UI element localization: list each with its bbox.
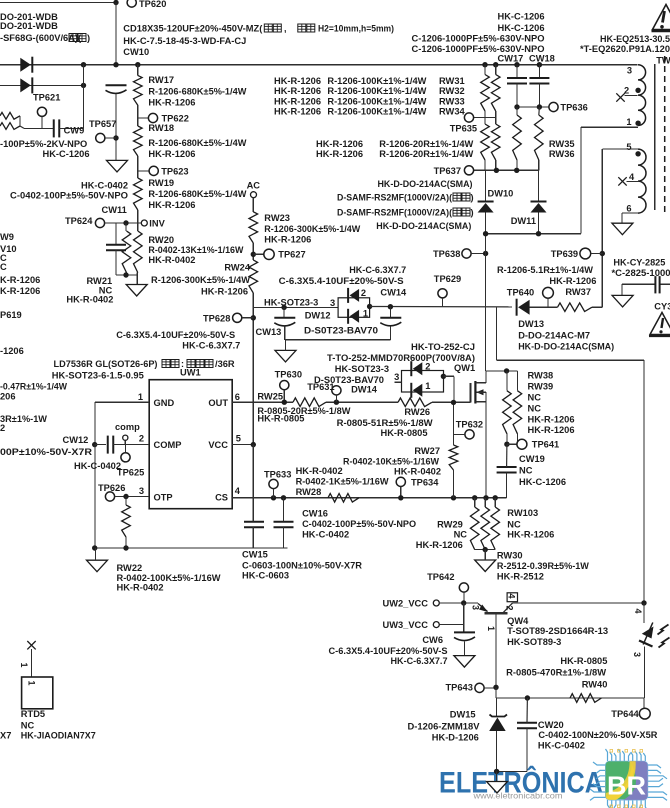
svg-text:5: 5 (626, 142, 631, 152)
svg-text:HK-R-0805: HK-R-0805 (381, 428, 428, 438)
svg-text:3: 3 (330, 298, 335, 308)
svg-text:C-0603-100N±10%-50V-X7R: C-0603-100N±10%-50V-X7R (242, 561, 362, 571)
svg-text:3: 3 (394, 372, 399, 382)
wire CW14 stem (389, 307, 391, 318)
wire CW9 left (20, 126, 24, 128)
node sense j2 (493, 495, 498, 500)
box RTD5 (22, 677, 53, 709)
wire CY3 gnd (621, 284, 623, 295)
resistor RW39 (513, 391, 522, 434)
svg-text:R-1206-20R±1%-1/4W: R-1206-20R±1%-1/4W (379, 149, 473, 159)
svg-text:HK-R-1206: HK-R-1206 (549, 276, 596, 286)
svg-text:R-1206-680K±5%-1/4W: R-1206-680K±5%-1/4W (148, 138, 246, 148)
capacitor CW13 (274, 317, 295, 319)
svg-text:TP633: TP633 (264, 470, 291, 480)
svg-text:3: 3 (632, 652, 642, 657)
svg-text:3R±1%-1W: 3R±1%-1W (0, 414, 47, 424)
svg-text:D-1206-ZMM18V: D-1206-ZMM18V (408, 722, 481, 732)
resistor RW30 (481, 507, 490, 550)
svg-text:RW31: RW31 (439, 76, 465, 86)
resistor RW26 (398, 398, 432, 407)
test point TP634 (396, 477, 405, 486)
pin comp circle (123, 435, 128, 440)
svg-text:TP644: TP644 (611, 709, 639, 719)
svg-text:HK-D-DO-214AC(SMA): HK-D-DO-214AC(SMA) (376, 221, 471, 231)
svg-text:TP634: TP634 (411, 478, 439, 488)
wire RTD5 pin (31, 649, 33, 677)
svg-text:R-1206-100K±1%-1/4W: R-1206-100K±1%-1/4W (327, 76, 426, 86)
svg-text:C-1206-1000PF±5%-630V-NPO: C-1206-1000PF±5%-630V-NPO (412, 34, 545, 44)
svg-text:4: 4 (629, 172, 635, 182)
svg-text:HK-D-DO-214AC(SMA): HK-D-DO-214AC(SMA) (518, 342, 614, 352)
wire CW9 right (59, 127, 83, 129)
test point TP624 (95, 218, 104, 227)
svg-text:HK-R-1206: HK-R-1206 (148, 200, 195, 210)
wire TP623 tap (138, 170, 150, 172)
resistor RW24 (249, 260, 258, 293)
node CW14 tap (388, 304, 393, 309)
node CW13 tap (281, 305, 286, 310)
node tp637 j1 (494, 168, 499, 173)
wire RW24 bottom (252, 293, 254, 445)
wire INV (105, 222, 142, 224)
node TP630 tap (282, 400, 287, 405)
svg-text:T-TO-252-MMD70R600P(700V/8A): T-TO-252-MMD70R600P(700V/8A) (327, 353, 475, 363)
svg-text:HK-C-6.3X7.7: HK-C-6.3X7.7 (391, 656, 448, 666)
svg-text:RW30: RW30 (497, 551, 523, 561)
svg-text:HK-C-0402: HK-C-0402 (74, 461, 121, 471)
test point TP629 (438, 289, 447, 298)
svg-text:2: 2 (361, 288, 366, 298)
wire VCC pin5 (232, 444, 253, 446)
diode DW11 (531, 201, 547, 203)
svg-text:D-S0T23-BAV70: D-S0T23-BAV70 (304, 326, 378, 336)
test point TP643 (475, 683, 484, 692)
svg-text:NC: NC (507, 520, 521, 530)
wire rw33 bot (484, 160, 486, 170)
svg-text:R-1206-100K±1%-1/4W: R-1206-100K±1%-1/4W (327, 97, 426, 107)
wire CW13-CW14 gnd rail (285, 339, 391, 341)
node pin1 tap (635, 121, 640, 126)
node INV junction (123, 220, 128, 225)
wire QW1 source (485, 402, 487, 498)
wire RW19 to INV (137, 210, 139, 223)
svg-text:CW11: CW11 (102, 205, 127, 215)
wire comp stem (124, 440, 126, 444)
svg-text:RW33: RW33 (439, 97, 465, 107)
svg-text:C: C (0, 262, 7, 272)
svg-text:R-1206-300K±5%-1/4W: R-1206-300K±5%-1/4W (264, 224, 360, 234)
capacitor CW6 (454, 631, 475, 633)
svg-text:HK-C-0402: HK-C-0402 (538, 741, 585, 751)
svg-text:2: 2 (624, 86, 629, 96)
svg-text:TP622: TP622 (162, 114, 189, 124)
svg-text:TP627: TP627 (278, 250, 305, 260)
node pin5 tap (635, 151, 640, 156)
resistor RW29 NC (470, 507, 479, 550)
node RTD5 X (27, 641, 35, 649)
warning triangle mid (650, 313, 670, 335)
svg-text:LD7536R GL(SOT26-6P): LD7536R GL(SOT26-6P) (54, 359, 158, 369)
wire gnd stem rail (95, 548, 97, 560)
test point TP641 (517, 439, 527, 449)
svg-text:HK-R-2512: HK-R-2512 (497, 572, 544, 582)
svg-text:1: 1 (425, 381, 430, 391)
node TP641 tap (504, 442, 509, 447)
wire gnd stem z (496, 771, 498, 781)
svg-text:CW9: CW9 (64, 126, 85, 136)
svg-text:RW20: RW20 (148, 235, 174, 245)
wire OUT pin6 (232, 401, 293, 403)
svg-text:TP629: TP629 (434, 274, 461, 284)
svg-text:RW34: RW34 (439, 107, 465, 117)
wire TP639 link (591, 253, 603, 255)
svg-text:HK-R-1206: HK-R-1206 (528, 425, 575, 435)
wire CW12 left (95, 444, 106, 446)
capacitor CW15 (244, 521, 264, 523)
svg-text:2: 2 (0, 423, 5, 433)
svg-text:TP620: TP620 (139, 0, 166, 9)
wire second line (0, 84, 84, 86)
svg-text:4: 4 (633, 609, 643, 614)
test point TP632 (465, 430, 474, 439)
svg-text:VCC: VCC (208, 440, 228, 450)
svg-text:RW21: RW21 (87, 276, 113, 286)
svg-text:R-1206-680K±5%-1/4W: R-1206-680K±5%-1/4W (148, 87, 246, 97)
wire TP636 rail (517, 106, 549, 108)
svg-text:TP624: TP624 (65, 216, 93, 226)
svg-text:6: 6 (626, 204, 631, 214)
svg-text:HK-R-0402: HK-R-0402 (296, 466, 343, 476)
test point TP630 (280, 381, 289, 390)
pin INV circle (141, 220, 147, 226)
svg-text:BR: BR (607, 771, 646, 801)
wire feedback (495, 307, 497, 360)
svg-text:NC: NC (528, 404, 542, 414)
ground INV chain (126, 285, 147, 297)
capacitor CW18 (538, 65, 540, 79)
wire CW11 bottom (115, 250, 117, 275)
svg-text:K-R-1206: K-R-1206 (0, 275, 40, 285)
wire DW13-RW37 (530, 306, 558, 308)
svg-text:*T-EQ2620.P91A.120: *T-EQ2620.P91A.120 (580, 44, 670, 54)
wire TP634 stem (400, 487, 402, 498)
svg-text:RW35: RW35 (549, 139, 575, 149)
svg-text:): ) (471, 208, 474, 218)
node tp636 j1 (514, 104, 519, 109)
resistor RW34 (491, 124, 500, 160)
svg-text:HK-C-0603: HK-C-0603 (242, 571, 289, 581)
svg-text:RW18: RW18 (148, 123, 174, 133)
svg-text:RW22: RW22 (117, 563, 143, 573)
svg-text:T-SOT89-2SD1664R-13: T-SOT89-2SD1664R-13 (507, 626, 608, 636)
svg-text:COMP: COMP (154, 440, 182, 450)
capacitor CW19 (497, 466, 517, 468)
svg-text:DW14: DW14 (351, 385, 378, 395)
wire zener stem (496, 698, 498, 717)
svg-text:RW25: RW25 (257, 392, 283, 402)
svg-text:HK-TO-252-CJ: HK-TO-252-CJ (411, 342, 475, 352)
svg-text:2: 2 (139, 434, 144, 444)
node clamp j1 (483, 231, 488, 236)
svg-text:5: 5 (236, 434, 241, 444)
node TP627 tap (251, 252, 256, 257)
wire OTP pin3 (115, 496, 150, 498)
resistor RW103 NC (491, 507, 500, 550)
svg-text:comp: comp (115, 422, 140, 432)
wire diode join vertical (83, 65, 85, 129)
diode DW12 (338, 298, 370, 318)
wire sense bottom (475, 549, 496, 551)
svg-text:HK-C-6.3X7.7: HK-C-6.3X7.7 (182, 341, 240, 351)
svg-text:HK-R-1206: HK-R-1206 (316, 149, 363, 159)
wire pin5 (602, 148, 638, 150)
svg-text:*C-2825-1000: *C-2825-1000 (612, 268, 670, 278)
svg-text:HK-R-1206: HK-R-1206 (316, 139, 363, 149)
wire TP622 tap (138, 117, 149, 119)
svg-text:HK-D-1206: HK-D-1206 (432, 733, 479, 743)
node CW20 tap (525, 695, 530, 700)
wire RW37 right (592, 306, 602, 308)
transformer primary winding (638, 65, 646, 126)
svg-text:C-1206-1000PF±5%-630V-NPO: C-1206-1000PF±5%-630V-NPO (412, 44, 545, 54)
wire TP641 link (507, 443, 517, 445)
svg-text:HK-C-6.3X7.7: HK-C-6.3X7.7 (349, 265, 406, 275)
svg-text:C-6.3X5.4-10UF±20%-50V-S: C-6.3X5.4-10UF±20%-50V-S (279, 276, 404, 286)
svg-text:CW14: CW14 (380, 287, 407, 297)
wire UW2_VCC (439, 602, 478, 604)
diode DW15 zener (490, 715, 508, 717)
wire gnd stem inv (136, 273, 138, 285)
wire zener rail (495, 687, 497, 698)
svg-text:HK-R-1206: HK-R-1206 (148, 149, 195, 159)
svg-text:D-DO-214AC-M7: D-DO-214AC-M7 (518, 331, 590, 341)
wire CS pin4 (232, 497, 506, 499)
ground CW10 (107, 160, 128, 172)
ground CW6 (454, 656, 475, 668)
node TP628 junction (251, 315, 256, 320)
test point TP633 (269, 479, 278, 488)
wire TP643 link (484, 687, 496, 689)
svg-text:1: 1 (19, 663, 29, 668)
node TP643 junction (493, 685, 498, 690)
svg-text:RW40: RW40 (582, 680, 608, 690)
svg-text:HK-R-1206: HK-R-1206 (148, 98, 195, 108)
svg-text:RW36: RW36 (549, 149, 575, 159)
svg-text:RW39: RW39 (528, 382, 554, 392)
svg-text:OUT: OUT (208, 398, 228, 408)
svg-text:HK-EQ2513-30.5: HK-EQ2513-30.5 (600, 34, 670, 44)
wire snubber (253, 306, 338, 308)
wire AC stem (252, 198, 254, 212)
wire INV gnd rail (116, 274, 138, 276)
svg-text:-100P±5%-2KV-NPO: -100P±5%-2KV-NPO (0, 139, 87, 149)
resistor RW40 (570, 694, 602, 703)
diode D1 top-left (31, 57, 33, 73)
svg-text:HK-C-7.5-18-45-3-WD-FA-CJ: HK-C-7.5-18-45-3-WD-FA-CJ (123, 36, 246, 46)
svg-text:DW15: DW15 (450, 710, 476, 720)
node TP631 tap (334, 400, 339, 405)
node sense j1 (472, 495, 477, 500)
svg-text:RW26: RW26 (404, 407, 430, 417)
resistor RW19 (134, 178, 143, 210)
capacitor CW20 (517, 722, 537, 724)
svg-text:TP625: TP625 (117, 468, 144, 478)
svg-text:TP643: TP643 (446, 683, 473, 693)
wire RW23-TP627 (252, 243, 254, 260)
wire TP632 link (454, 433, 465, 435)
svg-text:TP641: TP641 (532, 440, 559, 450)
tap pin2 (625, 95, 638, 97)
resistor RW32 (495, 65, 497, 75)
svg-text:CW20: CW20 (538, 720, 564, 730)
wire CW10 to gnd (115, 94, 117, 160)
svg-text:NC: NC (454, 530, 468, 540)
svg-text:R-0402-10K±5%-1/16W: R-0402-10K±5%-1/16W (343, 457, 439, 467)
wire primary return (580, 127, 582, 234)
svg-text:206: 206 (0, 392, 16, 402)
svg-text:RW38: RW38 (528, 371, 554, 381)
test point TP623 (149, 166, 158, 175)
svg-text:CW6: CW6 (422, 635, 443, 645)
transistor Q4 QW4 (485, 612, 508, 614)
svg-text:,: , (284, 24, 287, 34)
node vcc2 junction (461, 600, 466, 605)
svg-text:UW3_VCC: UW3_VCC (383, 620, 429, 630)
svg-text:TP623: TP623 (161, 167, 188, 177)
svg-text:RW37: RW37 (565, 287, 591, 297)
pin AC circle (251, 192, 257, 198)
diode opto LED (643, 623, 653, 645)
svg-text:HK-R-1206: HK-R-1206 (274, 86, 321, 96)
wire GND pin1 (95, 401, 149, 403)
svg-text:AC: AC (247, 180, 261, 190)
svg-text:UW1: UW1 (180, 368, 201, 378)
svg-text:1: 1 (486, 626, 496, 631)
ground CY3 (612, 295, 633, 307)
wire rw3x mid1 (484, 111, 486, 124)
svg-text:D-SAMF-RS2MF(1000V/2A)(: D-SAMF-RS2MF(1000V/2A)( (337, 193, 453, 203)
svg-text:HK-SOT23-3: HK-SOT23-3 (335, 364, 389, 374)
ground secondary (612, 223, 633, 235)
wire CW13 bottom (284, 327, 286, 340)
svg-text:CY3: CY3 (654, 302, 670, 312)
svg-text:UW2_VCC: UW2_VCC (383, 598, 429, 608)
svg-text:DW11: DW11 (511, 216, 536, 226)
svg-text:DW10: DW10 (488, 189, 514, 199)
svg-text:TP632: TP632 (456, 419, 483, 429)
svg-text:HK-SOT23-6-1.5-0.95: HK-SOT23-6-1.5-0.95 (52, 371, 144, 381)
svg-text:R-2512-0.39R±5%-1W: R-2512-0.39R±5%-1W (497, 561, 589, 571)
wire CW14 bottom (389, 326, 391, 339)
svg-text:CW10: CW10 (123, 47, 149, 57)
test point TP644 (639, 708, 650, 719)
svg-text:CW17: CW17 (498, 54, 524, 64)
wire pin6 (622, 212, 638, 214)
svg-text:1: 1 (138, 392, 143, 402)
wire QW1 drain (485, 371, 487, 383)
wire TP635 tap (474, 117, 496, 119)
node fb junction (641, 600, 646, 605)
node TP638 junction (483, 251, 488, 256)
node INV gnd junction (123, 272, 128, 277)
wire DW10 top (485, 170, 487, 201)
node TP633 tap (271, 495, 276, 500)
svg-text:GND: GND (154, 398, 175, 408)
svg-text:D-SAMF-RS2MF(1000V/2A)(: D-SAMF-RS2MF(1000V/2A)( (337, 208, 453, 218)
svg-text:RW24: RW24 (224, 263, 250, 273)
test point TP639 (580, 248, 591, 259)
node CW16 tap (281, 495, 286, 500)
svg-text:W9: W9 (0, 232, 14, 242)
test point TP657 (96, 133, 105, 142)
svg-text:TP638: TP638 (433, 249, 460, 259)
node zener gnd j (494, 769, 499, 774)
svg-text:QW4: QW4 (507, 616, 529, 626)
svg-text:1: 1 (626, 117, 631, 127)
node TP634 tap (398, 495, 403, 500)
transistor Q1 QW1 mosfet (470, 383, 472, 403)
wire RW25-RW26 (326, 401, 398, 403)
ground bottom (487, 782, 508, 794)
svg-text:2: 2 (425, 362, 430, 372)
node TP657 tap (113, 135, 118, 140)
svg-text:TP630: TP630 (275, 370, 302, 380)
tap pin4 (627, 180, 639, 182)
svg-text:HK-SOT89-3: HK-SOT89-3 (507, 637, 561, 647)
svg-text:HK-SOT23-3: HK-SOT23-3 (264, 298, 318, 308)
test point TP631 (332, 386, 341, 395)
resistor RW33 (481, 124, 490, 160)
test point TP637 (464, 166, 473, 175)
wire GND rail down (94, 445, 96, 548)
svg-text:www.eletronicabr.com: www.eletronicabr.com (472, 790, 562, 800)
svg-text:1: 1 (27, 681, 37, 686)
wire DW10 down (485, 213, 487, 372)
wire DW11 down (538, 213, 540, 234)
pin UW2_VCC circle (433, 600, 439, 606)
svg-text:R-1206-100K±1%-1/4W: R-1206-100K±1%-1/4W (327, 107, 426, 117)
wire DW14 to gate node (443, 375, 454, 377)
svg-text:CW18: CW18 (529, 54, 555, 64)
wire TP621 stem (41, 116, 43, 128)
svg-text:C-0402-100P±5%-50V-NPO: C-0402-100P±5%-50V-NPO (10, 191, 128, 201)
svg-text:NC: NC (519, 466, 533, 476)
svg-text:HK-R-1206: HK-R-1206 (274, 97, 321, 107)
wire gnd stem13 (285, 340, 287, 351)
wire rw3x mid2 (495, 111, 497, 124)
svg-text:TP639: TP639 (551, 249, 578, 259)
svg-text:TP640: TP640 (507, 288, 534, 298)
node drain j (504, 368, 509, 373)
capacitor CW16 (274, 521, 294, 523)
svg-text:HK-C-1206: HK-C-1206 (497, 12, 544, 22)
wire DW11 top (538, 170, 540, 201)
diode DW13 (516, 299, 518, 316)
test point TP626 (105, 492, 114, 501)
svg-text:P619: P619 (0, 310, 22, 320)
resistor RW25 (293, 398, 326, 407)
wire UW3_VCC (439, 624, 463, 626)
wire clamp rail (486, 233, 581, 235)
wire RW17-RW18 (137, 118, 139, 126)
wire zener cap join (497, 770, 527, 772)
diode D2 second (31, 77, 33, 93)
svg-text:HK-R-0402: HK-R-0402 (117, 583, 164, 593)
svg-text:-0.47R±1%-1/4W: -0.47R±1%-1/4W (0, 382, 67, 392)
svg-text:3: 3 (627, 66, 632, 76)
svg-text:R-0402-13K±1%-1/16W: R-0402-13K±1%-1/16W (148, 245, 243, 255)
